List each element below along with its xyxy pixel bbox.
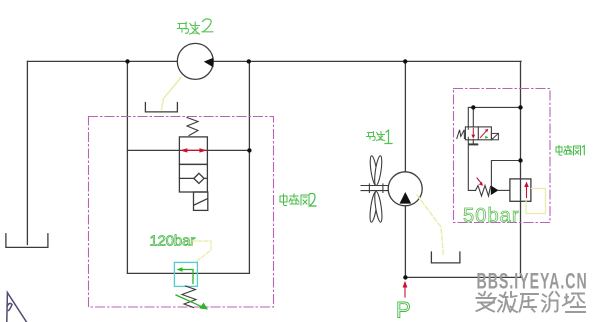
valve V1 red diagonal arrow bbox=[480, 129, 488, 139]
valve V1 port ticks bbox=[467, 127, 469, 140]
motor M2 circle bbox=[177, 43, 213, 79]
port marker A (blue) bbox=[7, 293, 27, 322]
wire loop right vertical bbox=[248, 61, 250, 273]
svg-text:P: P bbox=[396, 298, 411, 322]
label enclosure V2 (green CJK) 电磁阀2 bbox=[280, 193, 316, 206]
junction dot valve V2 right bbox=[247, 148, 251, 152]
junction dot right column pilot branch bbox=[518, 158, 522, 162]
label M spring of valve V1 bbox=[457, 130, 465, 139]
valve V2 lower position box with check valve bbox=[179, 164, 207, 192]
label enclosure V1 (green CJK) 电磁阀1 bbox=[556, 146, 584, 156]
wire valve V1 to relief R1 spring bbox=[468, 140, 475, 191]
fan blades bbox=[369, 155, 384, 222]
fan shaft bbox=[361, 184, 388, 193]
tank T4 under valve V1 bbox=[470, 143, 478, 145]
spring above valve V2 bbox=[187, 118, 198, 136]
junction dot valve V1 feed bbox=[471, 105, 475, 109]
tank T3 motor M1 drain bbox=[431, 252, 460, 263]
tank T1 bottom-left bbox=[6, 234, 48, 248]
valve V2 upper position box bbox=[179, 137, 207, 165]
drain line motor M1 yellow bbox=[417, 195, 444, 257]
solenoid of valve V2 bbox=[194, 192, 208, 210]
watermark CJK 爱液压论坛 bbox=[477, 292, 586, 312]
junction dot P node bbox=[403, 275, 407, 279]
motor M1 circle bbox=[388, 172, 422, 206]
relief R1 square bbox=[510, 179, 531, 201]
wire motor M1 vertical bbox=[404, 61, 406, 277]
valve V1 drain to tank bbox=[472, 140, 474, 144]
label motor M2 (green CJK) bbox=[178, 19, 213, 34]
relief valve R2 green adjust arrow bbox=[176, 295, 208, 310]
wire loop bottom horizontal bbox=[127, 272, 249, 274]
svg-text:120bar: 120bar bbox=[150, 233, 196, 250]
junction dot right of motor M2 bbox=[247, 59, 251, 63]
label 50bar (green) bbox=[463, 205, 520, 227]
wire top horizontal main bbox=[27, 60, 521, 62]
relief valve R2 cyan box bbox=[174, 262, 197, 286]
valve V1 body bbox=[465, 127, 491, 140]
valve V1 top wiring bbox=[468, 107, 520, 127]
red arrow P port bbox=[403, 281, 408, 297]
svg-text:BBS.IYEYA.CN: BBS.IYEYA.CN bbox=[477, 268, 588, 293]
dashed enclosure box V1 bbox=[454, 89, 551, 223]
wire right column vertical bbox=[520, 61, 522, 277]
wire valve V2 line bbox=[127, 149, 249, 151]
wire loop left vertical bbox=[126, 61, 128, 273]
pilot line yellow at relief R2 bbox=[192, 241, 211, 261]
pilot loop yellow R1 bbox=[526, 189, 546, 214]
motor M2 triangle bbox=[204, 58, 214, 68]
relief R1 spring bbox=[476, 186, 491, 197]
label 120bar (green) bbox=[150, 233, 196, 250]
pilot wire from right column bbox=[491, 161, 520, 186]
drain line motor M2 yellow bbox=[162, 78, 182, 110]
valve V1 red down arrow bbox=[471, 128, 475, 139]
wire cone to square bbox=[499, 189, 510, 191]
solenoid of valve V1 bbox=[491, 133, 498, 139]
tank T2 motor M2 drain bbox=[145, 103, 177, 112]
label P (green) bbox=[396, 298, 411, 322]
relief valve R2 spring bbox=[182, 286, 196, 308]
label motor M1 (green CJK) 马达1 bbox=[367, 130, 393, 143]
dashed enclosure box V2 bbox=[89, 117, 274, 308]
junction dot right column top branch bbox=[518, 105, 522, 109]
watermark BBS.IYEYA.CN bbox=[477, 268, 588, 293]
junction dot motor M1 top bbox=[403, 59, 407, 63]
wire left vertical to tank bbox=[26, 61, 28, 244]
valve V2 red flow arrows bbox=[180, 148, 207, 152]
svg-text:50bar: 50bar bbox=[463, 205, 520, 227]
junction dot top-left bbox=[125, 59, 129, 63]
relief R1 red up arrow bbox=[524, 182, 529, 198]
wire bottom horizontal to right column bbox=[405, 276, 521, 278]
relief valve R2 green arrow bbox=[177, 267, 194, 283]
motor M1 triangle bbox=[400, 192, 412, 204]
relief R1 black cone bbox=[491, 186, 499, 196]
relief R1 red adjust arrow bbox=[477, 178, 483, 186]
